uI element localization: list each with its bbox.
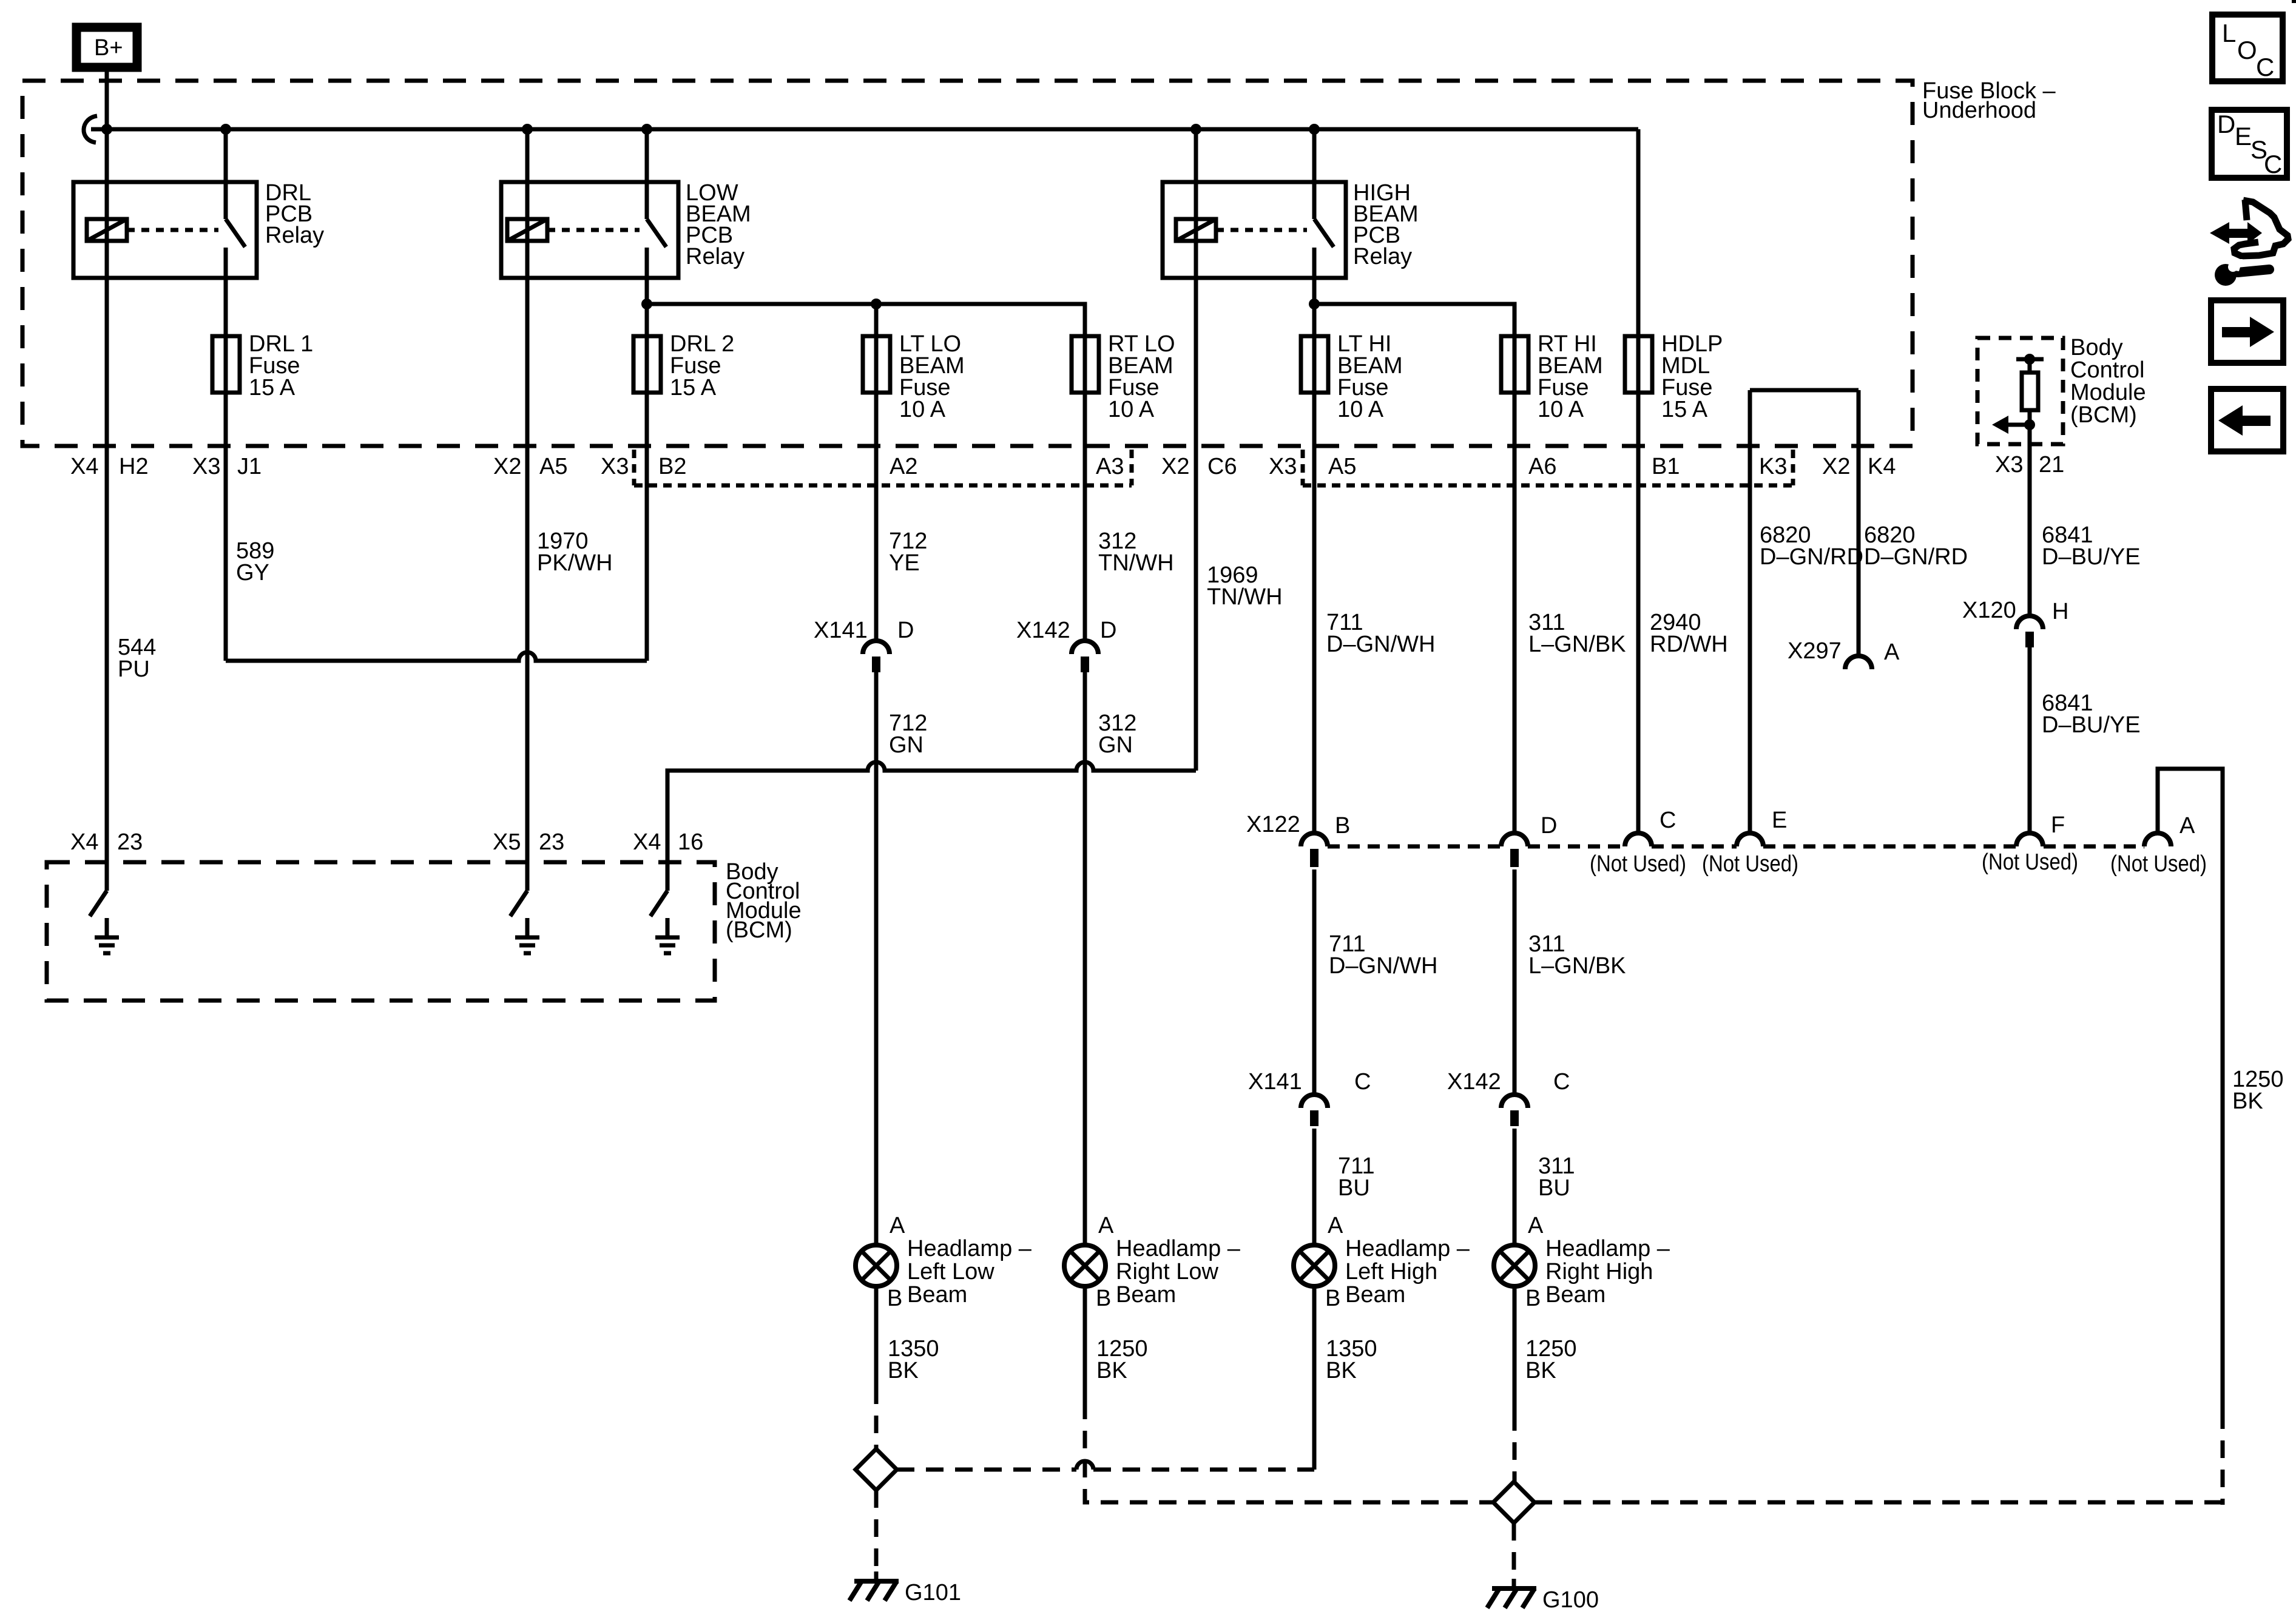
BCM internal supply tick <box>2016 357 2044 362</box>
svg-text:Left Low: Left Low <box>907 1259 994 1284</box>
svg-text:A: A <box>2180 813 2195 839</box>
wire 1350 BK left low lamp <box>874 1286 879 1386</box>
svg-text:GN: GN <box>889 732 923 758</box>
wire dashed diamond to G100 <box>1512 1523 1516 1576</box>
svg-text:K3: K3 <box>1759 454 1787 479</box>
svg-text:Relay: Relay <box>265 223 324 248</box>
svg-text:B: B <box>887 1286 902 1311</box>
relay LOW BEAM switch blade <box>647 219 666 247</box>
svg-text:BK: BK <box>1326 1358 1357 1383</box>
svg-text:H2: H2 <box>119 454 149 479</box>
svg-text:(Not Used): (Not Used) <box>1982 849 2078 875</box>
svg-text:C: C <box>1660 808 1676 833</box>
label relay LOW BEAM <box>686 180 751 269</box>
BCM ground switch X4-16 blade <box>650 891 667 916</box>
relay LOW BEAM coil-switch dashed link <box>547 228 640 232</box>
label HDLP MDL value <box>1661 331 1723 422</box>
wire LOW BEAM switch output junction to DRL 2 fuse <box>645 248 649 336</box>
label Right Low Beam pins A B <box>1096 1213 1114 1311</box>
fuse DRL 1 <box>212 336 240 393</box>
svg-text:B2: B2 <box>658 454 686 479</box>
svg-text:(Not Used): (Not Used) <box>1590 851 1686 877</box>
relay DRL coil <box>87 219 127 241</box>
svg-text:X2: X2 <box>1161 454 1189 479</box>
headlamp Right High Beam <box>1494 1245 1535 1286</box>
wire bump A loop up and over to right edge <box>2158 769 2223 1411</box>
ground symbol inside BCM at X4-23 <box>95 918 119 953</box>
node bus junction HIGH coil <box>1190 124 1201 135</box>
svg-text:C: C <box>1354 1069 1371 1095</box>
relay HIGH BEAM switch blade <box>1314 219 1334 247</box>
icon connector outline <box>2234 200 2288 256</box>
svg-text:D–GN/WH: D–GN/WH <box>1329 953 1437 979</box>
bus continuation squiggle <box>84 116 97 143</box>
headlamp Left Low Beam <box>856 1245 897 1286</box>
connector X141 cavity D <box>863 641 890 654</box>
svg-text:G101: G101 <box>905 1580 961 1605</box>
svg-text:X4: X4 <box>70 829 98 855</box>
wire HIGH BEAM relay switch from bus <box>1312 129 1317 219</box>
relay LOW BEAM box <box>501 182 678 278</box>
wire HIGH BEAM switch output to LT HI fuse <box>1312 248 1317 336</box>
svg-text:F: F <box>2051 812 2065 838</box>
svg-text:23: 23 <box>117 829 143 855</box>
node bus junction HIGH switch <box>1309 124 1320 135</box>
svg-text:RD/WH: RD/WH <box>1650 632 1728 657</box>
ground symbol inside BCM at X4-16 <box>655 918 680 953</box>
headlamp Left High Beam <box>1294 1245 1335 1286</box>
wire 6841 D-BU/YE X120 to bump F <box>2028 647 2032 833</box>
wire 1250 BK dashed to G100 splice <box>1513 1413 1517 1482</box>
relay HIGH BEAM coil-switch dashed link <box>1216 228 1307 232</box>
wire low beam feed rail <box>647 304 1085 336</box>
svg-text:Control: Control <box>2070 357 2145 383</box>
connector X141 cavity C <box>1301 1095 1328 1108</box>
svg-text:Beam: Beam <box>1116 1282 1176 1308</box>
svg-text:(BCM): (BCM) <box>2070 402 2137 428</box>
svg-text:E: E <box>1772 808 1787 833</box>
svg-text:B: B <box>1325 1286 1340 1311</box>
svg-text:Headlamp –: Headlamp – <box>1345 1236 1470 1261</box>
connector X122 cavity D <box>1501 833 1528 846</box>
wire dashed diamond to G101 <box>874 1490 879 1569</box>
svg-text:Body: Body <box>2070 335 2123 360</box>
svg-text:15 A: 15 A <box>670 375 717 400</box>
svg-text:Headlamp –: Headlamp – <box>1545 1236 1670 1261</box>
svg-text:GY: GY <box>236 560 269 586</box>
wire 589 GY: DRL1 fuse to elbow <box>224 392 228 661</box>
wire 712 YE: LT LO fuse to X141 <box>874 392 879 641</box>
svg-text:YE: YE <box>889 550 920 576</box>
svg-text:Headlamp –: Headlamp – <box>907 1236 1032 1261</box>
svg-text:Beam: Beam <box>1345 1282 1405 1308</box>
svg-text:GN: GN <box>1098 732 1133 758</box>
svg-text:A3: A3 <box>1096 454 1124 479</box>
svg-text:X142: X142 <box>1447 1069 1501 1095</box>
svg-text:X141: X141 <box>1248 1069 1302 1095</box>
wire 711 BU: X141-C to left high lamp <box>1312 1129 1317 1245</box>
relay HIGH BEAM coil <box>1176 219 1216 241</box>
wire 1250 BK right high lamp <box>1513 1286 1517 1413</box>
label LT HI BEAM value <box>1337 331 1403 422</box>
label Left Low Beam name <box>907 1236 1032 1308</box>
svg-text:X3: X3 <box>601 454 629 479</box>
svg-text:X3: X3 <box>1995 452 2023 478</box>
svg-text:A5: A5 <box>539 454 567 479</box>
fuse RT LO BEAM <box>1072 336 1099 393</box>
connector bump E not used <box>1737 833 1763 846</box>
svg-text:PU: PU <box>118 657 150 682</box>
wire high beam feed rail <box>1314 304 1514 336</box>
svg-text:BK: BK <box>1525 1358 1556 1383</box>
relay DRL coil-switch dashed link <box>127 228 218 232</box>
svg-text:J1: J1 <box>237 454 262 479</box>
svg-text:C: C <box>1553 1069 1570 1095</box>
svg-text:X122: X122 <box>1246 812 1300 837</box>
svg-text:Headlamp –: Headlamp – <box>1116 1236 1241 1261</box>
label LT LO BEAM value <box>899 331 965 422</box>
svg-text:Left High: Left High <box>1345 1259 1437 1284</box>
connector X120 cavity H <box>2016 616 2043 629</box>
svg-text:B+: B+ <box>94 35 123 61</box>
BCM bottom-left dashed box <box>47 862 715 1001</box>
ground symbol inside BCM at X5-23 <box>515 918 539 953</box>
node BCM resistor top <box>2024 354 2035 365</box>
wire right 1250 BK dashed to G100 row <box>2221 1411 2225 1505</box>
connector X142 cavity C <box>1501 1095 1528 1108</box>
svg-text:A: A <box>1884 640 1900 665</box>
node BCM output junction <box>2024 419 2035 430</box>
wire B2: DRL2 fuse down to elbow <box>645 392 649 661</box>
fuse LT LO BEAM <box>863 336 890 393</box>
svg-text:X142: X142 <box>1016 618 1070 643</box>
wire 1969 TN/WH elbow to BCM X4-16 with hops <box>667 762 1196 891</box>
wire 1250 BK dashed elbow to G100 row <box>1085 1402 1493 1502</box>
svg-text:X2: X2 <box>1822 454 1850 479</box>
resistor inside BCM <box>2022 373 2038 410</box>
svg-text:D–BU/YE: D–BU/YE <box>2042 544 2141 570</box>
icon DESC box <box>2212 110 2287 178</box>
svg-text:D–BU/YE: D–BU/YE <box>2042 712 2141 738</box>
wire 712 GN: X141 to left low lamp <box>874 672 879 1245</box>
relay DRL switch blade <box>226 219 245 247</box>
svg-text:A2: A2 <box>890 454 917 479</box>
connector X142 cavity D <box>1072 641 1098 654</box>
wire 2940 RD/WH: HDLP MDL fuse to bump C <box>1636 392 1641 833</box>
icon connector test double arrow <box>2210 222 2262 244</box>
svg-text:L–GN/BK: L–GN/BK <box>1528 953 1626 979</box>
svg-text:A6: A6 <box>1528 454 1556 479</box>
relay LOW BEAM coil <box>507 219 547 241</box>
wire bus corner down to HDLP MDL fuse <box>1636 129 1641 336</box>
svg-text:L–GN/BK: L–GN/BK <box>1528 632 1626 657</box>
node low beam rail at LT LO <box>871 299 882 309</box>
label relay DRL <box>265 180 324 248</box>
ground G101 symbol <box>849 1571 899 1601</box>
node bus junction LOW coil <box>522 124 533 135</box>
svg-text:23: 23 <box>539 829 564 855</box>
svg-text:C6: C6 <box>1207 454 1237 479</box>
wire 1350 BK left high lamp solid <box>1312 1286 1317 1470</box>
svg-text:K4: K4 <box>1868 454 1896 479</box>
fuse HDLP MDL <box>1625 336 1652 393</box>
svg-text:D: D <box>897 618 914 643</box>
svg-text:A: A <box>1528 1213 1544 1238</box>
splice diamond G100 net <box>1493 1482 1535 1523</box>
svg-text:X2: X2 <box>493 454 521 479</box>
svg-text:(Not Used): (Not Used) <box>1702 851 1798 877</box>
wire 311 BU: X142-C to right high lamp <box>1513 1129 1517 1245</box>
fuse RT HI BEAM <box>1501 336 1528 393</box>
fuse DRL 2 <box>633 336 661 393</box>
connector bump A not used <box>2144 833 2171 846</box>
BCM top-right dashed box <box>1977 338 2063 444</box>
svg-text:BK: BK <box>888 1358 919 1383</box>
svg-text:B: B <box>1525 1286 1541 1311</box>
svg-text:21: 21 <box>2039 452 2064 478</box>
svg-text:E: E <box>2235 122 2252 150</box>
icon back arrow box <box>2211 389 2283 451</box>
wire B+ feed bus <box>91 127 1638 132</box>
svg-text:10 A: 10 A <box>899 397 946 422</box>
svg-text:D–GN/RD: D–GN/RD <box>1760 544 1863 570</box>
wire K3-K4 jumper loop top <box>1750 388 1859 393</box>
svg-text:Right Low: Right Low <box>1116 1259 1219 1284</box>
svg-text:D–GN/RD: D–GN/RD <box>1864 544 1968 570</box>
node low beam rail at DRL2 <box>641 299 652 309</box>
svg-text:X120: X120 <box>1962 598 2016 623</box>
svg-text:A5: A5 <box>1328 454 1356 479</box>
svg-text:X3: X3 <box>192 454 220 479</box>
wire LOW BEAM relay coil from bus down to BCM X5-23 (1970 PK/WH) <box>525 129 530 891</box>
fuse LT HI BEAM <box>1301 336 1328 393</box>
svg-text:G100: G100 <box>1542 1587 1599 1613</box>
BCM ground switch X4-23 blade <box>90 891 107 916</box>
svg-text:TN/WH: TN/WH <box>1098 550 1174 576</box>
svg-text:D: D <box>1541 813 1557 839</box>
wire LT LO fuse drop <box>874 304 879 336</box>
label Left High Beam pins A B <box>1325 1213 1343 1311</box>
svg-text:B: B <box>1096 1286 1111 1311</box>
label RT LO BEAM value <box>1108 331 1175 422</box>
node bus junction at B+ <box>101 124 112 135</box>
svg-text:Relay: Relay <box>686 244 745 269</box>
wire resistor leads <box>2028 359 2032 615</box>
svg-text:A: A <box>1098 1213 1114 1238</box>
label Right Low Beam name <box>1116 1236 1241 1308</box>
connector bump F not used <box>2016 833 2043 846</box>
svg-text:Beam: Beam <box>1545 1282 1606 1308</box>
svg-text:H: H <box>2052 599 2068 624</box>
wire 1250 BK right low lamp <box>1083 1286 1087 1402</box>
svg-text:15 A: 15 A <box>249 375 295 400</box>
label Right High Beam name <box>1545 1236 1670 1308</box>
wire K4 6820 D-GN/RD to X297 <box>1857 390 1861 656</box>
connector sub-box A5/A6/B1/K3 dashed <box>1303 450 1793 485</box>
svg-text:D: D <box>1100 618 1116 643</box>
connector bump C not used <box>1625 833 1652 846</box>
svg-text:C: C <box>2264 150 2282 178</box>
svg-text:10 A: 10 A <box>1108 397 1155 422</box>
wire LOW BEAM relay switch from bus <box>645 129 649 219</box>
wire 1350 BK dashed to G101 splice <box>874 1386 879 1449</box>
svg-text:BU: BU <box>1538 1175 1570 1201</box>
wire G100 dashed row right <box>1535 1501 2223 1505</box>
label DRL 1 value <box>249 331 313 400</box>
svg-text:O: O <box>2237 36 2257 64</box>
svg-text:15 A: 15 A <box>1661 397 1708 422</box>
relay HIGH BEAM box <box>1163 182 1346 278</box>
connector sub-box B2/A2/A3 dashed <box>634 450 1132 485</box>
svg-text:A: A <box>890 1213 905 1238</box>
wire elbow 589 GY to B2 with hop over A5 wire <box>226 652 647 661</box>
wire 311 L-GN/BK: RT HI fuse to X122-D <box>1513 392 1517 833</box>
svg-text:TN/WH: TN/WH <box>1207 584 1283 610</box>
svg-text:16: 16 <box>678 829 703 855</box>
page corner mark <box>2292 0 2296 3</box>
svg-text:Module: Module <box>2070 380 2146 405</box>
svg-text:BK: BK <box>2232 1089 2263 1114</box>
label Right High Beam pins A B <box>1525 1213 1544 1311</box>
svg-text:L: L <box>2222 19 2236 47</box>
svg-text:A: A <box>1328 1213 1343 1238</box>
wire K3 6820 D-GN/RD to bump E <box>1748 390 1752 833</box>
wire 312 YE: RT LO fuse to X142 <box>1083 392 1087 641</box>
svg-text:Underhood: Underhood <box>1922 98 2036 123</box>
svg-text:B: B <box>1335 813 1350 839</box>
fuse block underhood dashed outline <box>22 81 1913 446</box>
svg-text:10 A: 10 A <box>1337 397 1384 422</box>
svg-text:X4: X4 <box>70 454 98 479</box>
svg-text:X5: X5 <box>493 829 521 855</box>
wire B+ down through DRL relay coil to BCM X4-23 <box>105 66 109 891</box>
connector X297 cavity A <box>1845 656 1872 669</box>
relay DRL box <box>73 182 257 278</box>
svg-text:(BCM): (BCM) <box>726 917 792 943</box>
label Fuse Block Underhood <box>1922 78 2056 123</box>
label relay HIGH BEAM <box>1353 180 1419 269</box>
hop over right low wire <box>1076 1461 1093 1470</box>
svg-text:PK/WH: PK/WH <box>537 550 613 576</box>
icon LOC box <box>2212 15 2283 81</box>
svg-text:10 A: 10 A <box>1538 397 1584 422</box>
node bus junction LOW switch <box>641 124 652 135</box>
svg-text:(Not Used): (Not Used) <box>2110 851 2207 877</box>
svg-text:C: C <box>2256 53 2274 81</box>
node bus junction DRL switch <box>220 124 231 135</box>
wire 711 D-GN/WH: X122-B to X141-C <box>1312 869 1317 1095</box>
wire DRL relay switch from bus <box>224 129 228 219</box>
wire G101 dashed row with hop <box>897 1468 1076 1472</box>
label Left High Beam name <box>1345 1236 1470 1308</box>
svg-text:BU: BU <box>1338 1175 1370 1201</box>
label DRL 2 value <box>670 331 734 400</box>
svg-text:B1: B1 <box>1652 454 1680 479</box>
wire 711 D-GN/WH: LT HI fuse to X122-B <box>1312 392 1317 833</box>
svg-text:Beam: Beam <box>907 1282 967 1308</box>
BCM X122 dashed boundary row <box>1328 845 2144 849</box>
label RT HI BEAM value <box>1538 331 1603 422</box>
wire HIGH BEAM relay coil from bus (1969 TN/WH) <box>1194 129 1198 771</box>
headlamp Right Low Beam <box>1064 1245 1106 1286</box>
svg-text:D: D <box>2217 110 2235 138</box>
svg-text:Right High: Right High <box>1545 1259 1653 1284</box>
svg-text:X297: X297 <box>1788 638 1842 664</box>
label Left Low Beam pins A B <box>887 1213 905 1311</box>
wire DRL relay switch output to DRL 1 fuse <box>224 248 228 336</box>
wire 311 L-GN/BK: X122-D to X142-C <box>1513 869 1517 1095</box>
svg-text:BK: BK <box>1096 1358 1127 1383</box>
icon wrench <box>2215 259 2269 286</box>
icon forward arrow box <box>2211 300 2283 363</box>
BCM output arrow left <box>1992 416 2030 434</box>
svg-text:D–GN/WH: D–GN/WH <box>1326 632 1435 657</box>
wire 312 GN: X142 to right low lamp <box>1083 672 1087 1245</box>
node high beam rail at LT HI <box>1309 299 1320 309</box>
ground G100 symbol <box>1487 1579 1536 1608</box>
connector X122 cavity B <box>1301 833 1328 846</box>
splice diamond G101 net <box>856 1449 897 1490</box>
svg-text:X4: X4 <box>633 829 661 855</box>
svg-text:Relay: Relay <box>1353 244 1412 269</box>
svg-text:X3: X3 <box>1269 454 1297 479</box>
svg-text:X141: X141 <box>814 618 868 643</box>
BCM ground switch X5-23 blade <box>510 891 527 916</box>
B+ battery terminal box <box>76 27 137 67</box>
